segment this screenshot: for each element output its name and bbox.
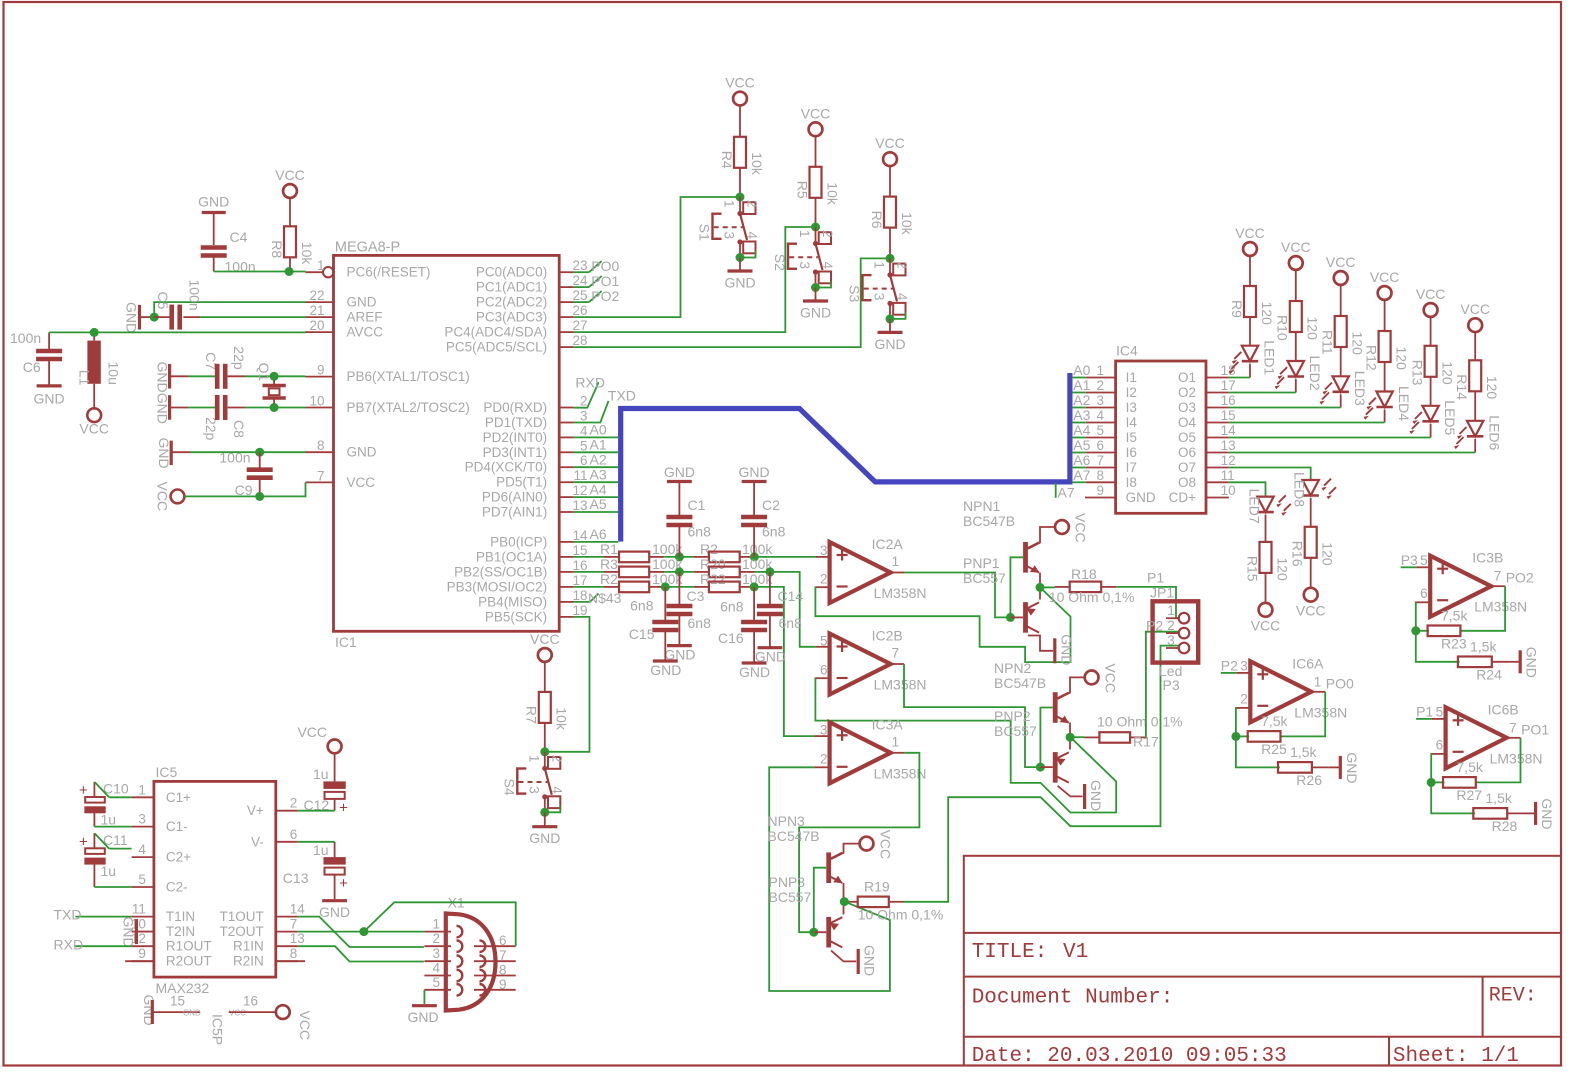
wire C13 to V- — [298, 841, 335, 843]
svg-text:100n: 100n — [219, 450, 250, 466]
LED LED2 — [1275, 356, 1323, 393]
wire LED4 to IC4 — [1229, 422, 1385, 424]
capacitor C8 — [203, 395, 247, 441]
svg-text:9: 9 — [317, 363, 325, 378]
svg-text:VCC: VCC — [1460, 301, 1490, 317]
svg-text:GND: GND — [407, 1009, 438, 1025]
svg-text:VCC: VCC — [1370, 269, 1400, 285]
svg-text:11: 11 — [132, 902, 146, 917]
svg-text:C8: C8 — [231, 420, 247, 438]
connector JP1 — [1146, 570, 1198, 694]
svg-text:O1: O1 — [1178, 370, 1196, 385]
svg-text:GND: GND — [874, 336, 905, 352]
wire IC6B to R28 — [1431, 782, 1475, 813]
svg-text:MEGA8-P: MEGA8-P — [335, 240, 400, 256]
svg-text:R19: R19 — [864, 879, 890, 895]
svg-text:Document Number:: Document Number: — [972, 987, 1174, 1010]
svg-text:2: 2 — [1167, 618, 1175, 633]
svg-text:I6: I6 — [1126, 445, 1137, 460]
svg-text:2: 2 — [580, 394, 588, 409]
wire GND-C8 — [188, 407, 217, 409]
net label PO2 — [574, 288, 620, 304]
wire R3-R20 — [664, 571, 694, 573]
wire LED6 to IC4 — [1229, 452, 1475, 454]
PNP1 collector to ground — [1028, 636, 1053, 651]
svg-text:O2: O2 — [1178, 385, 1196, 400]
ground below S3 — [874, 319, 905, 352]
svg-text:VCC: VCC — [877, 830, 893, 860]
wire IC6A output loop — [1282, 692, 1326, 737]
svg-text:100n: 100n — [187, 280, 203, 311]
svg-text:A7: A7 — [1073, 467, 1090, 483]
junction C5/GND — [150, 313, 159, 322]
svg-text:6: 6 — [580, 453, 588, 468]
svg-text:R4: R4 — [719, 151, 735, 169]
svg-text:1: 1 — [892, 554, 900, 569]
svg-text:+: + — [79, 833, 88, 850]
svg-text:C2: C2 — [762, 497, 780, 513]
svg-text:C13: C13 — [283, 870, 309, 886]
svg-text:3: 3 — [797, 262, 812, 270]
svg-text:VCC: VCC — [1326, 254, 1356, 270]
svg-text:PNP2: PNP2 — [994, 708, 1031, 724]
svg-text:IC2A: IC2A — [872, 536, 904, 552]
svg-text:7,5k: 7,5k — [1441, 607, 1468, 623]
title block frame — [964, 856, 1561, 1066]
svg-text:25: 25 — [572, 288, 587, 303]
IC IC1 MEGA8-P box — [334, 240, 560, 651]
resistor R2 — [694, 541, 773, 562]
svg-text:VCC: VCC — [801, 105, 831, 121]
IC5 left pins — [131, 782, 212, 968]
resistor R16 — [1290, 527, 1336, 589]
bus A0-A7 — [621, 373, 1070, 542]
svg-text:1: 1 — [892, 735, 900, 750]
wire LED3 to IC4 — [1229, 407, 1341, 409]
svg-text:BC547B: BC547B — [768, 828, 820, 844]
ground after R28 — [1524, 798, 1555, 829]
svg-text:7,5k: 7,5k — [1456, 759, 1483, 775]
ground at T2IN — [121, 917, 154, 948]
svg-text:R5: R5 — [794, 181, 810, 199]
svg-text:GND: GND — [347, 445, 377, 460]
connector X1 shell — [446, 895, 496, 1011]
junction emitters pair3 — [840, 897, 849, 906]
resistor R1 — [574, 541, 684, 562]
capacitor C12 — [304, 766, 349, 816]
svg-text:GND: GND — [1344, 752, 1360, 783]
resistor R28 — [1473, 790, 1524, 834]
svg-text:1: 1 — [526, 755, 541, 763]
svg-text:VCC: VCC — [1235, 225, 1265, 241]
wire IC3A feedback sense — [769, 767, 890, 991]
wire LED5 to IC4 — [1229, 437, 1431, 439]
svg-text:R8: R8 — [269, 240, 285, 258]
net label RXD — [574, 374, 605, 407]
svg-text:LED7: LED7 — [1247, 489, 1263, 524]
op-amp IC6B — [1416, 701, 1542, 768]
svg-text:BC557: BC557 — [963, 570, 1006, 586]
wire IC6A to R26 — [1236, 736, 1280, 767]
svg-text:S4: S4 — [501, 779, 517, 796]
wire R19 to JP1 pin3 — [904, 646, 1179, 902]
svg-text:IC5P: IC5P — [210, 1014, 226, 1045]
svg-text:23: 23 — [572, 258, 587, 273]
svg-text:4: 4 — [1096, 408, 1104, 423]
ground below S4 — [529, 812, 560, 846]
LED LED3 — [1320, 371, 1368, 408]
svg-text:6n8: 6n8 — [720, 599, 744, 615]
svg-text:A6: A6 — [1073, 452, 1090, 468]
IC5 pin9 stub — [125, 960, 154, 962]
capacitor C4 — [201, 229, 256, 275]
svg-text:GND: GND — [1539, 798, 1555, 829]
wire IC1 pin19 to S4 — [545, 617, 590, 752]
junction C2 row1 — [750, 552, 759, 561]
wire IC6B feedback to pin — [1430, 754, 1432, 783]
svg-text:2: 2 — [820, 752, 828, 767]
svg-text:16: 16 — [572, 558, 587, 573]
wire C12 to V+ — [298, 810, 335, 812]
svg-text:+: + — [339, 875, 348, 892]
svg-text:5: 5 — [138, 872, 146, 887]
transistor NPN3 — [768, 813, 843, 883]
capacitor C10 — [79, 781, 132, 828]
svg-text:13: 13 — [290, 931, 305, 946]
svg-text:1,5k: 1,5k — [1290, 744, 1317, 760]
junction C14 row2 — [765, 567, 774, 576]
svg-text:+: + — [79, 782, 88, 799]
title block date — [972, 1045, 1287, 1068]
svg-text:R28: R28 — [1492, 818, 1518, 834]
NPN2 emitter wire — [1069, 723, 1071, 738]
wire GND-C7 — [188, 375, 217, 377]
connector X1 pins — [424, 917, 515, 996]
svg-text:GND: GND — [1088, 780, 1104, 811]
svg-text:GND: GND — [862, 945, 878, 976]
svg-text:120: 120 — [1393, 347, 1409, 371]
svg-text:Date: 20.03.2010 09:05:33: Date: 20.03.2010 09:05:33 — [972, 1045, 1287, 1068]
svg-text:P2: P2 — [1146, 618, 1163, 634]
ground below C6 — [34, 386, 65, 406]
svg-text:PC3(ADC3): PC3(ADC3) — [476, 310, 547, 325]
svg-text:16: 16 — [1221, 393, 1236, 408]
svg-text:GND: GND — [124, 302, 140, 333]
svg-text:26: 26 — [572, 303, 587, 318]
svg-text:6: 6 — [1436, 737, 1444, 752]
resistor R3 — [574, 556, 684, 577]
svg-text:7: 7 — [1494, 569, 1502, 584]
svg-text:A1: A1 — [1073, 377, 1090, 393]
ground at C8 — [155, 393, 189, 424]
svg-text:R9: R9 — [1229, 300, 1245, 318]
svg-text:1: 1 — [1314, 674, 1322, 689]
svg-text:A1: A1 — [590, 437, 607, 453]
svg-text:PC1(ADC1): PC1(ADC1) — [476, 280, 547, 295]
svg-text:2: 2 — [1096, 378, 1104, 393]
svg-text:PO1: PO1 — [591, 273, 619, 289]
svg-text:R25: R25 — [1261, 741, 1287, 757]
junction IC3B feedback — [1411, 626, 1420, 635]
NPN1 collector to VCC — [1028, 513, 1088, 549]
junction S1 bottom — [736, 253, 745, 262]
svg-text:120: 120 — [1274, 557, 1290, 581]
svg-text:C2-: C2- — [166, 880, 188, 895]
svg-text:PO1: PO1 — [1521, 721, 1549, 737]
crystal Q1 — [256, 363, 286, 408]
svg-text:Q1: Q1 — [256, 363, 272, 382]
wire IC2A output to bases — [904, 573, 1010, 618]
svg-text:1u: 1u — [101, 863, 117, 879]
svg-text:PB1(OC1A): PB1(OC1A) — [476, 549, 547, 564]
svg-text:6: 6 — [820, 663, 828, 678]
svg-text:7: 7 — [892, 646, 900, 661]
svg-text:PB2(SS/OC1B): PB2(SS/OC1B) — [454, 564, 547, 579]
svg-text:R23: R23 — [1441, 636, 1467, 652]
ground below S1 — [724, 258, 755, 291]
transistor PNP2 — [994, 708, 1069, 783]
resistor R27 — [1431, 759, 1484, 803]
resistor R4 — [719, 105, 765, 197]
junction Q1 bottom — [270, 403, 279, 412]
svg-text:GND: GND — [183, 1009, 201, 1018]
capacitor C1 — [666, 497, 711, 557]
svg-text:PC5(ADC5/SCL): PC5(ADC5/SCL) — [446, 340, 547, 355]
op-amp IC6A — [1221, 655, 1347, 722]
svg-text:3: 3 — [872, 293, 887, 301]
svg-text:LM358N: LM358N — [1474, 599, 1527, 615]
junction IC6B feedback — [1427, 778, 1436, 787]
capacitor C16 — [718, 587, 767, 663]
LED LED8 — [1292, 472, 1336, 527]
svg-text:T2IN: T2IN — [166, 924, 195, 939]
svg-text:A0: A0 — [590, 422, 607, 438]
resistor R11 — [1320, 284, 1366, 376]
resistor R8 — [269, 197, 315, 271]
wire S3 to IC1 pin28 — [574, 258, 890, 347]
svg-text:C2+: C2+ — [166, 850, 191, 865]
svg-text:10k: 10k — [824, 182, 840, 206]
IC4 gnd pin 9 — [1085, 483, 1156, 505]
capacitor C15 — [629, 587, 679, 661]
svg-text:LED6: LED6 — [1487, 415, 1503, 450]
svg-text:10 Ohm 0,1%: 10 Ohm 0,1% — [1097, 714, 1183, 730]
transistor NPN2 — [994, 660, 1069, 723]
wire T2OUT to X1 pin6 — [364, 902, 516, 946]
junction R4/S1 — [736, 193, 745, 202]
junction R6/S3 — [886, 254, 895, 263]
svg-text:12: 12 — [572, 483, 587, 498]
IC5 right pins — [220, 796, 306, 969]
junction emitters pair1 — [1036, 583, 1045, 592]
title block REV — [1489, 985, 1537, 1008]
IC4 pin 10 CD+ — [1169, 483, 1236, 505]
svg-text:C6: C6 — [23, 359, 41, 375]
svg-text:R27: R27 — [1456, 787, 1482, 803]
svg-text:1,5k: 1,5k — [1485, 790, 1512, 806]
svg-text:120: 120 — [1484, 376, 1500, 400]
wire T1OUT to X1 pin2 — [298, 917, 424, 947]
svg-text:1: 1 — [317, 258, 325, 273]
title block TITLE text — [972, 941, 1089, 964]
vcc for R7 — [530, 631, 560, 662]
PNP2 emitter wire — [1069, 737, 1071, 749]
net label PO1 — [574, 273, 620, 289]
ground PNP3 — [858, 945, 878, 976]
svg-text:100n: 100n — [10, 330, 41, 346]
wire GND to pin22 — [154, 302, 305, 317]
svg-text:4: 4 — [138, 842, 146, 857]
svg-text:C4: C4 — [230, 229, 248, 245]
svg-text:A3: A3 — [590, 466, 607, 482]
svg-text:VCC: VCC — [155, 482, 171, 512]
svg-text:7: 7 — [1096, 453, 1104, 468]
wire R21-R22 — [664, 586, 694, 588]
resistor R17 — [1070, 714, 1183, 750]
svg-text:24: 24 — [572, 273, 588, 288]
svg-text:PNP3: PNP3 — [769, 874, 806, 890]
svg-text:PD6(AIN0): PD6(AIN0) — [482, 490, 547, 505]
svg-text:PC4(ADC4/SDA): PC4(ADC4/SDA) — [444, 325, 547, 340]
resistor R26 — [1278, 744, 1329, 788]
svg-text:GND: GND — [1524, 647, 1540, 678]
svg-text:I2: I2 — [1126, 385, 1137, 400]
svg-text:BC557: BC557 — [994, 723, 1037, 739]
svg-text:VCC: VCC — [1102, 663, 1118, 693]
svg-text:1u: 1u — [101, 812, 117, 828]
power pin IC5P VCC — [229, 994, 313, 1041]
junction S4 bottom — [540, 808, 549, 817]
svg-text:GND: GND — [739, 664, 770, 680]
title block sheet — [1393, 1045, 1519, 1068]
svg-text:O6: O6 — [1178, 445, 1196, 460]
LED LED4 — [1364, 386, 1412, 423]
svg-text:GND: GND — [121, 917, 137, 948]
svg-text:C1-: C1- — [166, 819, 188, 834]
junction emitters pair2 — [1066, 733, 1075, 742]
svg-text:A5: A5 — [590, 496, 607, 512]
svg-text:GND: GND — [319, 904, 350, 920]
svg-text:27: 27 — [572, 318, 587, 333]
svg-text:T2OUT: T2OUT — [220, 924, 264, 939]
svg-text:C1+: C1+ — [166, 790, 191, 805]
wire S2 to IC1 pin27 — [574, 227, 816, 332]
transistor NPN1 — [963, 498, 1039, 573]
resistor R22 — [694, 571, 773, 592]
resistor R15 — [1244, 542, 1290, 604]
svg-text:2: 2 — [290, 796, 298, 811]
transistor PNP3 — [769, 874, 843, 948]
svg-text:IC4: IC4 — [1116, 343, 1138, 359]
bus tail label A7 — [1056, 483, 1075, 501]
ground PNP1 — [1055, 634, 1075, 665]
svg-text:20: 20 — [309, 318, 324, 333]
wire R18 to JP1 pin1 — [1116, 587, 1178, 618]
svg-text:TITLE:: TITLE: — [972, 941, 1048, 964]
wire C8 to pin10 — [245, 407, 306, 409]
svg-text:22p: 22p — [203, 417, 219, 441]
capacitor C9 — [219, 450, 272, 499]
wire R17 to JP1 pin2 — [1145, 632, 1178, 738]
svg-text:L1: L1 — [76, 370, 92, 386]
ground below S2 — [800, 288, 831, 321]
svg-text:R2IN: R2IN — [233, 954, 264, 969]
svg-text:I7: I7 — [1126, 460, 1137, 475]
svg-text:9: 9 — [1096, 483, 1104, 498]
resistor R5 — [794, 136, 840, 227]
svg-text:R12: R12 — [1363, 345, 1379, 371]
svg-text:NPN3: NPN3 — [768, 813, 806, 829]
svg-text:A7: A7 — [1058, 485, 1075, 501]
svg-text:1: 1 — [797, 230, 812, 238]
IC1 left pins — [306, 258, 470, 490]
svg-text:3: 3 — [1167, 633, 1175, 648]
svg-text:15: 15 — [1221, 408, 1236, 423]
svg-text:R6: R6 — [869, 211, 885, 229]
vcc for R10 — [1281, 239, 1311, 270]
svg-text:VCC: VCC — [79, 421, 109, 437]
IC IC5 MAX232 box — [154, 764, 276, 996]
wire row1 to IC2A — [755, 556, 816, 558]
svg-text:C3: C3 — [687, 588, 705, 604]
wire S1 to IC1 pin26 — [574, 197, 740, 317]
svg-text:PB5(SCK): PB5(SCK) — [485, 609, 547, 624]
svg-text:C16: C16 — [718, 630, 744, 646]
ground above C4 — [198, 194, 229, 246]
wire AVCC rail — [49, 331, 305, 333]
svg-text:7: 7 — [290, 917, 298, 932]
svg-text:LED1: LED1 — [1261, 340, 1277, 375]
svg-text:PD1(TXD): PD1(TXD) — [485, 415, 547, 430]
svg-text:10k: 10k — [749, 152, 765, 176]
net label PO0 — [574, 258, 620, 274]
svg-text:9: 9 — [138, 946, 146, 961]
ground above C2 — [739, 464, 770, 517]
svg-text:R1IN: R1IN — [233, 939, 264, 954]
wire IC4 pin12 to LED8 — [1229, 468, 1311, 480]
svg-text:GND: GND — [347, 295, 377, 310]
svg-text:PB7(XTAL2/TOSC2): PB7(XTAL2/TOSC2) — [347, 400, 470, 415]
svg-text:VCC: VCC — [875, 135, 905, 151]
svg-text:LED2: LED2 — [1307, 356, 1323, 391]
svg-text:C5: C5 — [155, 292, 171, 310]
vcc for R12 — [1370, 269, 1400, 300]
vcc at pin7 — [155, 482, 260, 512]
svg-text:O5: O5 — [1178, 430, 1196, 445]
IC IC4 box — [1116, 343, 1206, 514]
svg-text:R1OUT: R1OUT — [166, 939, 212, 954]
ground below C3 — [664, 646, 695, 663]
svg-text:17: 17 — [1221, 378, 1236, 393]
title block document number — [972, 987, 1174, 1010]
svg-text:2: 2 — [549, 755, 564, 763]
svg-text:19: 19 — [572, 603, 587, 618]
wire row3 to IC3A pin3 — [755, 587, 815, 736]
capacitor C14 — [757, 572, 803, 648]
svg-text:3: 3 — [1096, 393, 1104, 408]
svg-text:3: 3 — [820, 543, 828, 558]
svg-text:10k: 10k — [299, 242, 315, 266]
svg-text:GND: GND — [529, 830, 560, 846]
svg-text:LM358N: LM358N — [874, 677, 927, 693]
svg-text:VCC: VCC — [347, 475, 376, 490]
wire IC4 pin11 to LED7 — [1229, 482, 1266, 495]
resistor R7 — [524, 661, 570, 751]
svg-text:4: 4 — [549, 786, 564, 794]
svg-text:4: 4 — [745, 232, 760, 240]
svg-text:15: 15 — [170, 994, 185, 1009]
ground at C5 — [124, 302, 155, 333]
